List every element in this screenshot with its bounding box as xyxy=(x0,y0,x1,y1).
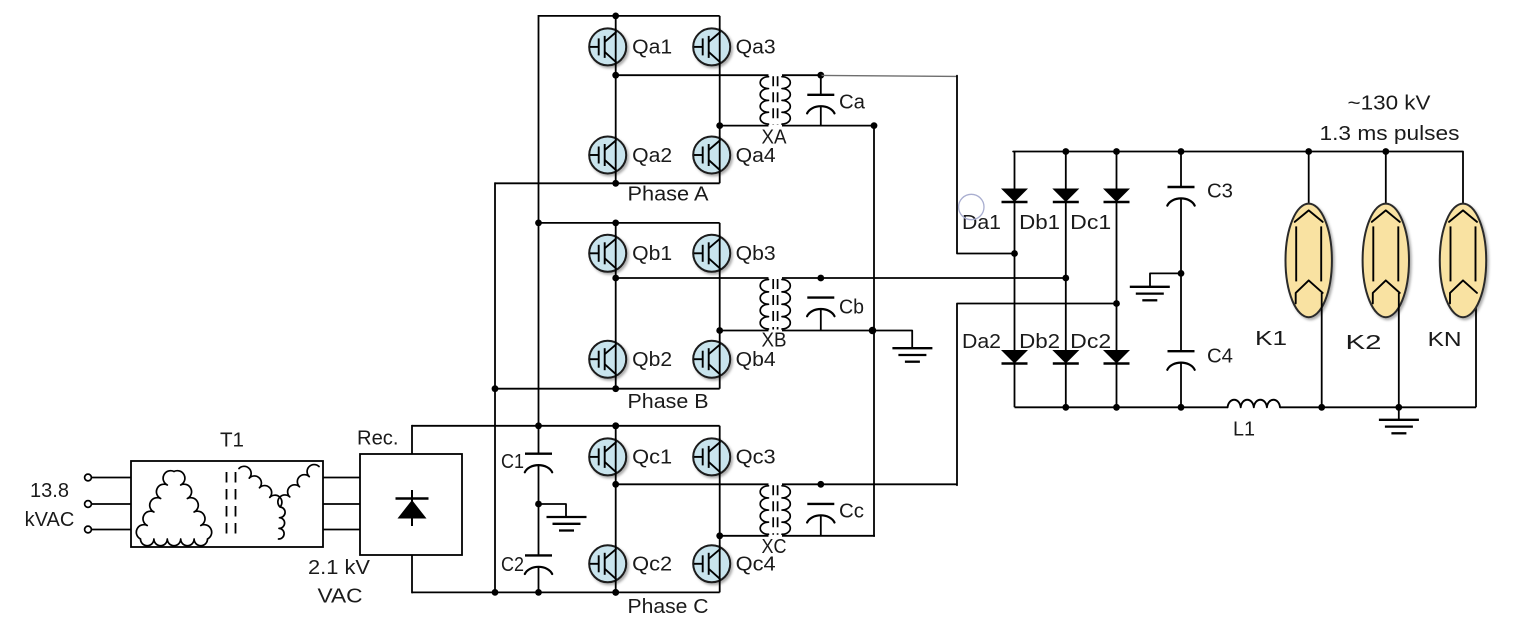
svg-text:K2: K2 xyxy=(1346,332,1382,354)
wire XA secondary bottom rail xyxy=(782,125,874,127)
junction dot Cb top xyxy=(817,275,824,282)
wire Cc output vertical xyxy=(957,304,1117,486)
wire DC- rail / Phase C bottom bus xyxy=(412,591,720,593)
ground symbol near C3 xyxy=(1130,286,1170,288)
transformer XB core xyxy=(772,279,774,330)
transistor Qa2 xyxy=(589,137,626,174)
wire Phase A right midpoint to XA primary bottom xyxy=(720,125,769,127)
transformer XB secondary winding xyxy=(782,280,790,330)
wire Phase C left leg xyxy=(615,426,617,593)
junction dot Phase A bottom bus at left leg xyxy=(612,180,619,187)
klystron K2 xyxy=(1363,204,1409,318)
junction dot top bus Db xyxy=(1062,148,1069,155)
ground symbol near Cb xyxy=(892,347,932,349)
junction dot DC- at C1 leg xyxy=(535,589,542,596)
wire Phase B top bus xyxy=(539,222,720,224)
wire XB secondary bottom rail xyxy=(782,330,873,332)
junction dot bottom bus K2 xyxy=(1395,404,1402,411)
junction dot XA bottom rail corner xyxy=(871,122,878,129)
wire Phase C left midpoint to XC primary top xyxy=(616,483,769,485)
wire Phase B right midpoint to XB primary bottom xyxy=(720,330,769,332)
diode Dc2 xyxy=(1103,350,1130,364)
wire Phase A top bus xyxy=(539,15,720,17)
wire XC secondary top rail xyxy=(782,483,957,485)
wire Ca output vertical xyxy=(957,76,1015,254)
svg-text:Dc2: Dc2 xyxy=(1070,331,1111,353)
wire DC+ rail / Phase C top bus xyxy=(412,425,720,427)
svg-text:Qc1: Qc1 xyxy=(632,447,672,469)
transformer XC secondary winding xyxy=(782,486,790,534)
transistor Qc3 xyxy=(693,438,730,475)
wire ground tap C3 xyxy=(1150,273,1181,286)
transformer XA core xyxy=(772,76,774,124)
wire input phase 1 to T1 xyxy=(92,477,132,479)
junction dot Phase A right midpoint xyxy=(716,122,723,129)
junction dot bottom bus K1 xyxy=(1318,404,1325,411)
junction dot Dc midpoint xyxy=(1113,300,1120,307)
transistor Qa3 xyxy=(693,28,730,65)
svg-text:C2: C2 xyxy=(501,554,524,576)
capacitor Cc xyxy=(807,503,834,505)
diode Da2 xyxy=(1001,350,1028,364)
wire common secondary return vertical xyxy=(873,125,875,537)
wire Ca top rail to right corner xyxy=(821,75,957,76)
junction dot Phase C top bus at left leg xyxy=(612,422,619,429)
wire Phase C right midpoint to XC primary bottom xyxy=(720,535,769,537)
junction dot DC- at Phase B bottom xyxy=(492,385,499,392)
wire C2 bottom lead xyxy=(538,567,540,593)
transistor Qa4 xyxy=(693,137,730,174)
wire Phase B left leg xyxy=(615,223,617,389)
wire C4 bottom lead xyxy=(1180,362,1182,407)
capacitor C1 xyxy=(525,453,552,455)
transformer XC core xyxy=(772,485,774,535)
wire Db column xyxy=(1065,152,1067,408)
transistor Qc1 xyxy=(589,438,626,475)
junction dot Phase A left midpoint xyxy=(612,72,619,79)
wire rectifier bottom to DC- rail xyxy=(411,555,413,593)
wire XA secondary top to Ca xyxy=(782,74,821,76)
svg-text:KN: KN xyxy=(1428,329,1462,351)
svg-text:Ca: Ca xyxy=(839,91,866,113)
wire C1 top lead xyxy=(538,426,540,454)
node artifact circle near Da1 xyxy=(959,194,984,219)
junction dot Phase B left midpoint xyxy=(612,275,619,282)
svg-text:Db2: Db2 xyxy=(1019,331,1060,353)
svg-text:XA: XA xyxy=(762,127,788,149)
junction dot top bus K2 xyxy=(1382,148,1389,155)
junction dot DC- at Phase C left leg xyxy=(612,589,619,596)
rectifier Rec. box xyxy=(360,454,462,555)
node input terminal 1 xyxy=(85,474,92,481)
svg-text:T1: T1 xyxy=(220,430,244,452)
transistor Qc4 xyxy=(693,545,730,582)
wire C1 bottom to C2 top xyxy=(538,465,540,556)
wire rectifier top to DC+ rail xyxy=(411,425,413,454)
transformer XC primary winding xyxy=(760,486,768,534)
wire HV bottom bus xyxy=(1015,406,1228,408)
svg-text:Qb2: Qb2 xyxy=(632,349,672,371)
wire Phase A bottom bus xyxy=(495,182,720,184)
junction dot Phase C bottom bus at left leg xyxy=(612,589,619,596)
junction dot Phase B top bus at DC+ vertical xyxy=(535,220,542,227)
junction dot XB bottom at common vertical xyxy=(869,327,877,335)
junction dot Phase C left midpoint xyxy=(612,481,619,488)
junction dot bottom bus Dc xyxy=(1113,404,1120,411)
svg-text:Qa3: Qa3 xyxy=(736,37,776,59)
svg-text:C3: C3 xyxy=(1207,181,1233,203)
svg-text:1.3 ms pulses: 1.3 ms pulses xyxy=(1320,123,1460,145)
svg-text:kVAC: kVAC xyxy=(25,509,75,531)
wire K1 top lead xyxy=(1308,152,1310,213)
svg-text:Qa2: Qa2 xyxy=(632,145,672,167)
wire Phase A left leg xyxy=(615,16,617,183)
svg-text:Dc1: Dc1 xyxy=(1070,212,1111,234)
junction dot Phase B right midpoint xyxy=(716,327,723,334)
diode Dc1 xyxy=(1103,189,1130,203)
wire XB secondary top rail to Db row xyxy=(782,277,1066,279)
klystron KN xyxy=(1440,204,1486,318)
svg-text:Phase C: Phase C xyxy=(628,596,709,618)
transformer XA secondary winding xyxy=(782,77,790,124)
svg-text:Rec.: Rec. xyxy=(357,428,399,450)
wire K1 bottom lead xyxy=(1321,293,1323,407)
svg-text:L1: L1 xyxy=(1233,419,1255,441)
svg-text:Phase A: Phase A xyxy=(628,184,710,206)
klystron K1 xyxy=(1286,204,1332,318)
svg-text:Qc3: Qc3 xyxy=(736,447,776,469)
svg-text:2.1 kV: 2.1 kV xyxy=(308,557,371,579)
wire ground tap C1C2 xyxy=(539,504,567,517)
transistor Qb3 xyxy=(693,235,730,272)
wire K2 top lead xyxy=(1385,152,1387,213)
svg-text:XB: XB xyxy=(762,330,787,352)
transistor Qb2 xyxy=(589,341,626,378)
wire KN bottom lead xyxy=(1475,293,1477,407)
svg-text:Cc: Cc xyxy=(839,501,864,523)
junction dot bottom bus C4 xyxy=(1178,404,1185,411)
capacitor C2 xyxy=(525,554,552,556)
transformer T1 wye winding xyxy=(239,465,319,539)
junction dot bottom bus Db xyxy=(1062,404,1069,411)
junction dot Phase B top bus at left leg xyxy=(612,220,619,227)
node input terminal 3 xyxy=(85,526,92,533)
transistor Qc2 xyxy=(589,545,626,582)
svg-text:Cb: Cb xyxy=(839,296,864,318)
diode Db2 xyxy=(1052,350,1079,364)
wire K2 bottom lead xyxy=(1398,293,1400,420)
svg-text:Qb3: Qb3 xyxy=(736,243,776,265)
svg-text:C1: C1 xyxy=(501,451,524,473)
transformer T1 core xyxy=(226,472,228,540)
capacitor C4 xyxy=(1168,350,1195,352)
junction dot DC+ at C1 leg xyxy=(535,422,542,429)
wire ground tap Cb xyxy=(873,331,913,349)
wire XC secondary bottom rail xyxy=(782,535,875,537)
ground symbol near C1 C2 xyxy=(547,516,587,518)
wire Phase C right leg xyxy=(719,426,721,593)
svg-text:Db1: Db1 xyxy=(1019,212,1060,234)
transistor Qb4 xyxy=(693,341,730,378)
transformer XA primary winding xyxy=(760,77,768,124)
svg-text:Qb4: Qb4 xyxy=(736,349,776,371)
wire Phase B left midpoint to XB primary top xyxy=(616,277,769,279)
wire Phase A right leg xyxy=(719,16,721,183)
junction dot Cc top xyxy=(817,481,824,488)
wire Phase B right leg xyxy=(719,223,721,389)
junction dot Db midpoint xyxy=(1062,275,1069,282)
transformer XB primary winding xyxy=(760,280,768,330)
junction dot DC+ at Phase C left leg xyxy=(612,422,619,429)
junction dot top bus K1 xyxy=(1305,148,1312,155)
junction dot top bus C3 xyxy=(1178,148,1185,155)
svg-text:Qc2: Qc2 xyxy=(632,554,672,576)
wire left DC+ vertical xyxy=(538,15,540,426)
svg-text:C4: C4 xyxy=(1207,345,1233,367)
transistor Qb1 xyxy=(589,235,626,272)
junction dot C3-C4 midpoint xyxy=(1178,270,1185,277)
junction dot DC- at left vertical xyxy=(492,589,499,596)
wire HV bottom bus right xyxy=(1280,406,1476,408)
wire C3 bottom to C4 top xyxy=(1180,198,1182,352)
junction dot Ca top xyxy=(817,72,824,79)
node input terminal 2 xyxy=(85,501,92,508)
svg-text:K1: K1 xyxy=(1255,328,1287,350)
wire input phase 3 to T1 xyxy=(92,529,132,531)
svg-text:13.8: 13.8 xyxy=(30,480,69,502)
transformer T1 box xyxy=(131,461,323,547)
wire Phase A left midpoint to XA primary top xyxy=(616,74,769,76)
junction dot C1-C2 midpoint xyxy=(535,501,542,508)
wire input phase 2 to T1 xyxy=(92,503,132,505)
wire Phase B bottom bus xyxy=(495,388,720,390)
svg-text:Qa1: Qa1 xyxy=(632,37,672,59)
junction dot Da midpoint xyxy=(1011,250,1018,257)
junction dot top bus Dc xyxy=(1113,148,1120,155)
junction dot Phase B bottom bus at left leg xyxy=(612,385,619,392)
wire Da column xyxy=(1014,152,1016,408)
wire left DC- vertical xyxy=(494,182,496,593)
transformer T1 delta winding xyxy=(136,471,211,546)
diode Da1 xyxy=(1001,189,1028,203)
wire T1 to rectifier 1 xyxy=(323,477,360,479)
svg-text:Phase B: Phase B xyxy=(628,391,709,413)
diode Db1 xyxy=(1052,189,1079,203)
wire C3 top lead xyxy=(1180,152,1182,188)
svg-text:~130 kV: ~130 kV xyxy=(1348,93,1432,115)
ground symbol below K2 xyxy=(1379,419,1419,421)
capacitor Ca xyxy=(807,94,834,96)
transistor Qa1 xyxy=(589,28,626,65)
junction dot Phase C right midpoint xyxy=(716,532,723,539)
junction dot Phase A top bus at left leg xyxy=(612,13,619,20)
svg-text:Qb1: Qb1 xyxy=(632,243,672,265)
diode inside rectifier xyxy=(411,490,413,526)
wire Dc column xyxy=(1116,152,1118,408)
svg-text:XC: XC xyxy=(762,536,787,558)
wire T1 to rectifier 3 xyxy=(323,529,360,531)
wire HV top bus xyxy=(1013,152,1463,207)
capacitor Cb xyxy=(807,296,834,298)
wire T1 to rectifier 2 xyxy=(323,503,360,505)
svg-text:Da2: Da2 xyxy=(962,331,1001,353)
capacitor C3 xyxy=(1168,186,1195,188)
inductor L1 xyxy=(1228,400,1280,408)
svg-text:VAC: VAC xyxy=(318,586,363,608)
